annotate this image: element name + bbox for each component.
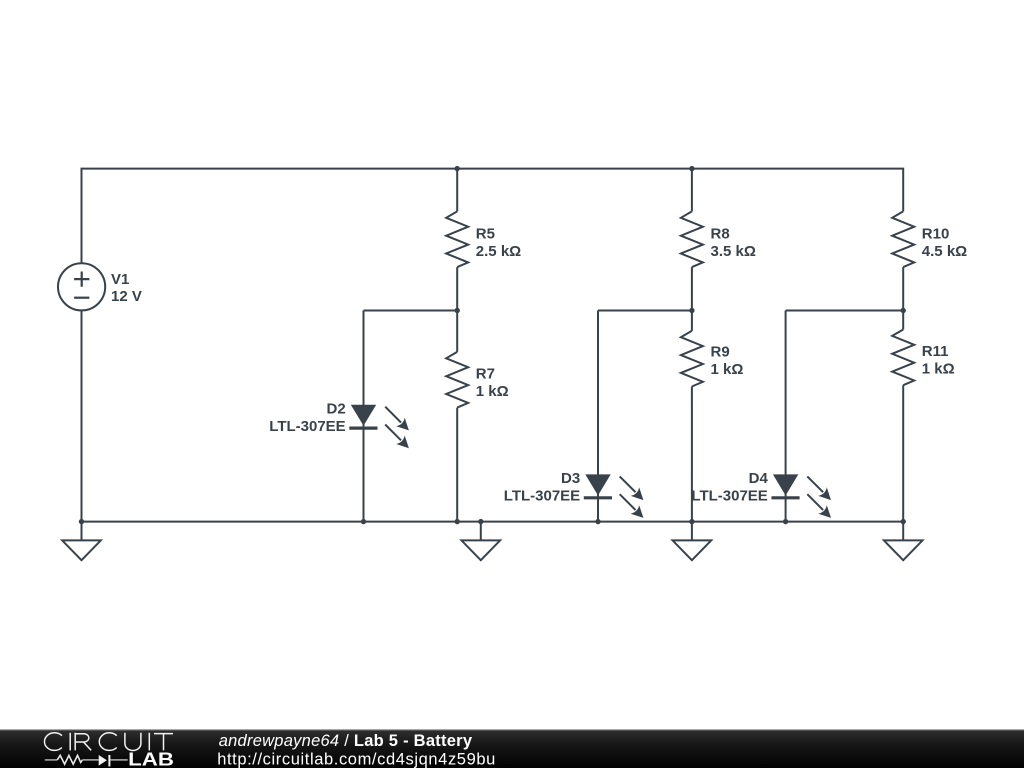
wire: D4 top to R10/R11 node [786,310,904,312]
svg-text:R11: R11 [922,343,949,360]
svg-text:http://circuitlab.com/cd4sjqn4: http://circuitlab.com/cd4sjqn4z59bu [217,750,496,768]
svg-text:1 kΩ: 1 kΩ [922,360,955,377]
svg-text:4.5 kΩ: 4.5 kΩ [922,243,967,260]
resistor R8 [681,211,703,267]
wire: R8 to R9 [691,267,693,331]
svg-text:D3: D3 [561,470,580,487]
svg-text:3.5 kΩ: 3.5 kΩ [711,243,756,260]
svg-text:LTL-307EE: LTL-307EE [504,488,580,505]
LED D4 [771,474,831,517]
wire: D2 top to R5/R7 node [364,310,458,312]
wire: R10 to R11 [902,267,904,329]
wire: D2 branch vertical [363,311,365,522]
LED D3 [584,474,644,517]
svg-text:R10: R10 [922,226,950,243]
junction node dots [455,166,460,171]
ground under R9 [673,522,712,561]
V1 plus sign [74,272,89,287]
ground near R7 [462,522,501,561]
wire: R9 to bottom rail [691,387,693,522]
wire: R7 to bottom rail [456,408,458,522]
ground under V1 [62,522,101,561]
V1 minus sign [74,297,89,299]
resistor R11 [892,330,914,386]
ground under R11 [884,522,923,561]
wire: D3 branch vertical [597,311,599,522]
svg-text:R7: R7 [476,366,495,383]
wire: R5 to node, through to R7 [456,267,458,352]
svg-text:LTL-307EE: LTL-307EE [691,488,767,505]
svg-text:2.5 kΩ: 2.5 kΩ [476,243,521,260]
wire: left branch up, top rail, down to R10 [82,169,904,264]
resistor R7 [446,352,468,408]
LED D2 [349,405,409,449]
wire: top rail to R8 [691,169,693,212]
wire: R11 to bottom rail [902,385,904,521]
svg-text:D2: D2 [327,400,346,417]
svg-text:andrewpayne64 / Lab 5 - Batter: andrewpayne64 / Lab 5 - Battery [219,732,473,750]
footer bar [0,729,1024,768]
resistor R9 [681,331,703,387]
wire: bottom ground rail [82,521,904,523]
svg-text:V1: V1 [111,271,129,288]
svg-text:12 V: 12 V [111,288,142,305]
logo resistor-diode squiggle [45,755,128,766]
CircuitLab logo CIRCUIT letters [44,733,173,751]
resistor R10 [892,211,914,267]
wire: D3 top to R8/R9 node [598,310,692,312]
svg-text:D4: D4 [749,470,769,487]
svg-text:R5: R5 [476,226,495,243]
resistor R5 [446,211,468,267]
svg-text:R8: R8 [711,226,730,243]
svg-text:1 kΩ: 1 kΩ [711,361,744,378]
svg-text:LAB: LAB [128,750,174,768]
wire: top rail to R5 [456,169,458,212]
wire: D4 branch vertical [785,311,787,522]
svg-text:1 kΩ: 1 kΩ [476,383,509,400]
svg-text:LTL-307EE: LTL-307EE [269,418,345,435]
wire: V1 bottom to bottom rail [81,310,83,521]
svg-text:R9: R9 [711,344,730,361]
voltage source V1 circle [58,263,105,310]
